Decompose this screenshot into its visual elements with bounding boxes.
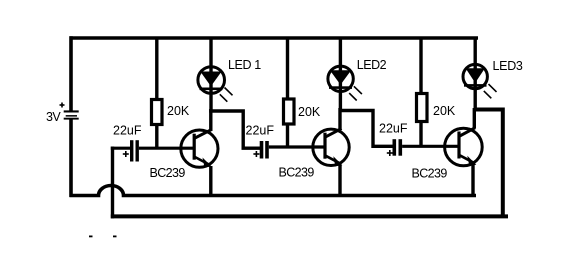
svg-text:LED2: LED2 bbox=[357, 58, 387, 72]
resistor R2 20K bbox=[284, 99, 295, 124]
svg-text:BC239: BC239 bbox=[279, 166, 315, 180]
LED D2 light rays bbox=[349, 86, 362, 100]
LED D1 bbox=[198, 67, 225, 94]
C3 plus sign bbox=[387, 150, 393, 156]
capacitor C1 22uF bbox=[130, 140, 139, 161]
wire feedback vertical (left) bbox=[111, 147, 114, 219]
wire stage2 coupling: right, down, right to C3 bbox=[339, 111, 393, 147]
wire C3 to Q3 base bbox=[402, 145, 459, 148]
wire to C1 left plate bbox=[111, 147, 131, 150]
wire stage1 coupling: right, down, right to C2 bbox=[209, 111, 260, 148]
svg-text:22uF: 22uF bbox=[113, 124, 142, 138]
transistor Q2 BC239 bbox=[313, 129, 349, 167]
wire R2 to base bbox=[286, 124, 289, 147]
resistor R1 20K bbox=[152, 100, 163, 125]
LED D2 feed wire bbox=[339, 38, 342, 112]
LED D1 light rays bbox=[220, 88, 233, 102]
svg-text:20K: 20K bbox=[298, 105, 321, 119]
wire stage3 feedback: right then down to bottom line bbox=[474, 110, 503, 217]
svg-text:22uF: 22uF bbox=[379, 121, 408, 135]
stray dash marks bottom left bbox=[89, 236, 117, 238]
C1 plus sign bbox=[123, 151, 129, 157]
svg-text:20K: 20K bbox=[167, 104, 190, 118]
wire C2 to Q2 base bbox=[269, 145, 325, 148]
wire Q2 collector up bbox=[338, 108, 341, 130]
resistor R2 feed wire bbox=[286, 38, 289, 99]
LED D1 feed wire bbox=[209, 38, 212, 113]
LED D2 bbox=[328, 66, 353, 91]
LED D3 bbox=[463, 64, 487, 88]
wire R1 to base bbox=[155, 125, 158, 149]
battery plus sign bbox=[60, 103, 65, 108]
battery B1 3V bbox=[64, 36, 79, 197]
wire top supply rail bbox=[70, 36, 479, 40]
C2 plus sign bbox=[253, 151, 259, 157]
svg-text:LED3: LED3 bbox=[493, 59, 523, 73]
svg-text:3V: 3V bbox=[46, 110, 61, 124]
wire feedback bottom line bbox=[111, 214, 508, 218]
LED D3 feed wire bbox=[474, 38, 477, 111]
svg-text:BC239: BC239 bbox=[412, 166, 448, 180]
capacitor C3 22uF bbox=[393, 139, 403, 156]
svg-text:22uF: 22uF bbox=[246, 123, 275, 137]
resistor R3 feed wire bbox=[419, 38, 422, 93]
resistor R3 20K bbox=[417, 94, 428, 122]
svg-text:LED 1: LED 1 bbox=[228, 58, 261, 72]
LED D3 light rays bbox=[484, 84, 497, 98]
capacitor C2 22uF bbox=[260, 141, 269, 159]
wire Q2 emitter down bbox=[338, 165, 341, 196]
wire Q3 collector up bbox=[473, 108, 476, 129]
wire Q3 emitter down bbox=[471, 165, 474, 196]
svg-text:BC239: BC239 bbox=[150, 166, 186, 180]
svg-text:20K: 20K bbox=[433, 104, 456, 118]
wire Q1 collector up bbox=[209, 109, 212, 131]
wire ground rail with hop over feedback wire bbox=[70, 186, 477, 196]
wire C1 to Q1 base bbox=[139, 147, 194, 150]
transistor Q3 BC239 bbox=[445, 128, 483, 166]
transistor Q1 BC239 bbox=[181, 130, 218, 168]
wire R3 to base bbox=[419, 122, 422, 147]
wire Q1 emitter down bbox=[209, 166, 212, 196]
resistor R1 feed wire bbox=[155, 38, 158, 99]
